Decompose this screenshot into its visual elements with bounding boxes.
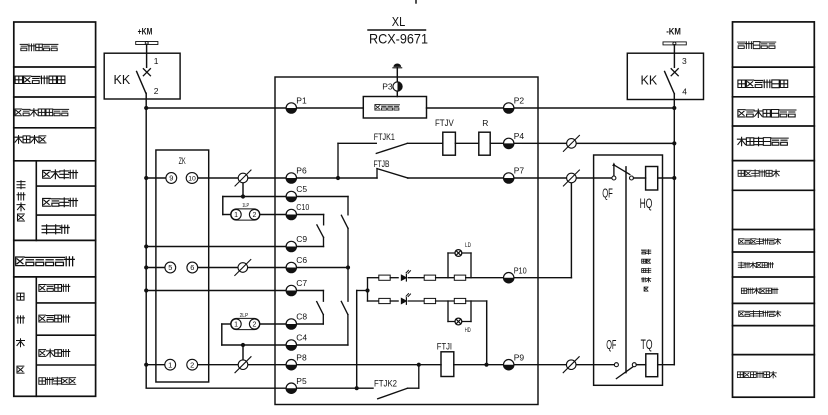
svg-text:HQ: HQ	[640, 196, 653, 211]
wire P10 up to P7 conn	[570, 183, 572, 278]
svg-text:C4: C4	[296, 333, 307, 343]
wire HQ to -KM bus	[658, 177, 675, 179]
wire C9 rail	[146, 246, 323, 248]
1LP terminal 2	[249, 209, 259, 219]
resistor upper 2	[424, 275, 435, 280]
knife switch C7-C8	[322, 291, 324, 302]
label 保护工作负电源	[738, 109, 796, 117]
resistor R	[479, 132, 490, 155]
gap between ZK contacts 5-6	[170, 265, 192, 269]
wire to 1LP	[223, 214, 232, 216]
terminal P10	[504, 273, 514, 283]
label 控制正电源	[20, 44, 58, 51]
wire 2LP elbow to C4	[221, 324, 223, 345]
label 跳闸回路 vertical	[17, 293, 25, 373]
svg-text:1LP: 1LP	[242, 203, 249, 209]
wire -KM to KK contact	[673, 45, 675, 68]
gap between ZK contacts 9-10	[171, 176, 192, 180]
KK right contact blade	[665, 72, 675, 94]
resistor upper 1	[379, 275, 390, 280]
knife switch C6-C4 (lower ZK stack)	[341, 301, 348, 314]
label 保护电源	[375, 105, 400, 110]
terminal P1	[286, 103, 296, 113]
svg-text:C8: C8	[296, 312, 307, 322]
ground/antenna symbol	[393, 63, 401, 66]
svg-text:2: 2	[190, 360, 194, 369]
knife switch C10-C9	[323, 215, 325, 225]
junction P5/branch	[355, 386, 359, 390]
label 开关跳闸线圈	[737, 371, 776, 378]
connector on P4 rail	[563, 135, 579, 151]
relay coil FTJI	[441, 352, 454, 377]
svg-text:2: 2	[253, 322, 257, 329]
2LP terminal 1	[231, 319, 241, 329]
label 遥控合闸	[43, 198, 78, 207]
contact FTJK1 (NO)	[337, 143, 339, 178]
terminal C9	[286, 241, 296, 251]
label 防跳接负电源	[737, 137, 788, 145]
junction FTJK1/P6	[336, 176, 340, 180]
relay coil FTJV	[443, 132, 456, 155]
svg-text:1: 1	[154, 56, 159, 66]
terminal C8	[286, 319, 296, 329]
1LP terminal 1	[231, 209, 241, 219]
svg-text:1: 1	[234, 212, 238, 219]
svg-text:2LP: 2LP	[240, 313, 249, 319]
svg-text:ZK: ZK	[179, 156, 186, 167]
wire FTJV to R	[455, 142, 478, 144]
svg-text:9: 9	[169, 174, 173, 183]
svg-text:1: 1	[234, 322, 238, 329]
svg-text:FTJK2: FTJK2	[374, 379, 397, 389]
wire P1 rail	[146, 107, 363, 109]
wire right -KM bus	[673, 94, 675, 365]
terminal P3	[393, 82, 402, 91]
2LP terminal 2	[249, 319, 259, 329]
label 防跳回路	[15, 135, 46, 143]
wire P10 rail	[514, 277, 572, 279]
terminal C5	[286, 191, 296, 201]
junction P6	[144, 176, 148, 180]
terminal P5	[286, 383, 296, 393]
knife switch C5-C6 (upper ZK stack)	[347, 197, 349, 215]
wire P7 rail	[408, 177, 614, 179]
svg-text:R: R	[482, 118, 488, 128]
svg-text:5: 5	[168, 263, 172, 272]
svg-text:C5: C5	[296, 184, 307, 194]
svg-text:HD: HD	[465, 328, 471, 334]
svg-text:P10: P10	[514, 265, 527, 275]
label 开关控制负极	[738, 80, 788, 88]
title fraction line	[368, 29, 426, 31]
wire P2 rail	[427, 107, 675, 109]
terminal C7	[286, 285, 296, 295]
module RCX-9671 box	[275, 77, 538, 405]
-KM terminal bar	[663, 42, 686, 45]
ZK contact 6	[187, 262, 198, 273]
KK left contact blade	[137, 72, 146, 94]
breaker typical circuit box	[594, 155, 663, 385]
svg-text:1: 1	[168, 360, 172, 369]
label 手动合闸	[43, 170, 78, 179]
right legend table	[733, 22, 815, 397]
upper indication branch (LD / P10)	[368, 277, 379, 279]
wire +KM to KK contact	[146, 44, 148, 67]
svg-text:2: 2	[154, 86, 159, 96]
svg-text:-KM: -KM	[666, 27, 681, 37]
label 保护合位指示灯	[739, 311, 781, 317]
wire FTJK1 to FTJV	[407, 142, 442, 144]
terminal P8	[286, 360, 296, 370]
lamp HD	[455, 318, 462, 325]
svg-text:6: 6	[190, 263, 194, 272]
junction C6	[144, 265, 148, 269]
label 跳闸自保持	[39, 377, 76, 385]
wire C5 rail	[223, 196, 348, 198]
wire P9 rail	[454, 364, 617, 366]
label 合闸回路监视	[738, 262, 773, 268]
stray tick top	[415, 0, 417, 3]
junction C9	[144, 244, 148, 248]
label 真空开关跳合闸回路 vertical block	[641, 250, 650, 292]
label 跳闸回路监视	[741, 288, 778, 294]
wire QF to HQ	[634, 177, 646, 179]
switch KK left box	[104, 53, 180, 99]
svg-text:10: 10	[188, 176, 196, 183]
mechanism link line	[625, 167, 627, 373]
terminal P9	[504, 360, 514, 370]
wire lower branch down to P9 rail	[486, 301, 488, 365]
svg-text:C6: C6	[296, 255, 307, 265]
switch KK right box	[627, 53, 703, 99]
resistor upper 3	[454, 275, 465, 280]
junction P2/-KM	[672, 106, 676, 110]
terminal P6	[286, 173, 296, 183]
contact QF upper (NO aux)	[613, 165, 615, 176]
label 合闸回路 vertical	[17, 181, 25, 221]
ZK contact 1	[165, 359, 176, 370]
connector on P8 rail	[235, 357, 251, 373]
svg-text:XL: XL	[392, 14, 406, 29]
coil TQ (trip coil)	[646, 354, 658, 377]
svg-text:C10: C10	[296, 202, 309, 212]
switch ZK box	[156, 150, 209, 382]
terminal P7	[504, 173, 514, 183]
svg-text:C7: C7	[296, 278, 307, 288]
label 开关控制正极	[15, 76, 65, 84]
wire C6 rail	[146, 267, 348, 269]
node common of LED branches	[367, 278, 369, 301]
wire left +KM bus	[145, 93, 147, 388]
svg-text:FTJK1: FTJK1	[374, 132, 395, 142]
junction C7	[144, 288, 148, 292]
svg-text:P4: P4	[514, 131, 525, 141]
svg-text:FTJI: FTJI	[437, 342, 452, 352]
junction conn/C4	[241, 343, 245, 347]
svg-text:LD: LD	[465, 243, 472, 249]
wire ground to P3 to power box	[396, 68, 398, 97]
ZK contact 10	[186, 173, 198, 184]
svg-text:4: 4	[682, 87, 687, 97]
svg-text:FTJB: FTJB	[374, 159, 390, 169]
junction HQ/-KM	[672, 176, 676, 180]
junction P8	[144, 363, 148, 367]
diode upper	[401, 270, 410, 281]
block 保护电源 box	[363, 97, 426, 119]
connector on C6 rail	[235, 260, 251, 276]
svg-text:+KM: +KM	[138, 27, 153, 37]
junction conn/C5	[241, 194, 245, 198]
svg-text:QF: QF	[602, 187, 613, 201]
svg-text:P2: P2	[514, 96, 525, 106]
svg-text:RCX-9671: RCX-9671	[369, 30, 428, 46]
resistor lower 2	[424, 298, 435, 303]
resistor lower 3	[454, 298, 465, 303]
KK left contact cross	[143, 69, 150, 76]
svg-text:TQ: TQ	[641, 337, 653, 352]
coil HQ (closing coil)	[646, 167, 658, 191]
label 重合闸	[42, 225, 69, 234]
wire C4 rail	[222, 344, 348, 346]
resistor lower 1	[379, 298, 390, 303]
wire stub C4 to conn	[242, 345, 244, 360]
left legend table	[14, 22, 96, 396]
wire stub conn to C5	[242, 183, 244, 197]
label 保护跳闸	[39, 284, 70, 291]
svg-text:P8: P8	[296, 352, 307, 362]
wire QF to TQ	[636, 364, 646, 366]
wire branch common down to P5 rail	[356, 291, 358, 389]
svg-text:KK: KK	[114, 73, 131, 87]
label 保护工作正电源	[15, 109, 69, 117]
label 控制负电源	[737, 42, 775, 49]
diode lower	[401, 294, 410, 305]
lower indication branch (HD / P9)	[368, 300, 379, 302]
strap link 1LP	[231, 209, 260, 220]
wire C10 rail	[259, 214, 323, 216]
label 手动跳闸	[39, 349, 70, 357]
terminal C10	[286, 209, 296, 219]
terminal P2	[504, 103, 514, 113]
KK right contact cross	[671, 69, 678, 76]
lamp HD loop	[447, 301, 449, 322]
label 遥控电源控制	[16, 257, 75, 266]
ZK contact 5	[165, 262, 176, 273]
connector on P9 rail	[563, 357, 579, 373]
gap between ZK contacts 1-2	[170, 363, 192, 367]
junction +KM/P1	[144, 106, 148, 110]
wire 2LP left	[222, 323, 232, 325]
ZK contact 9	[166, 173, 177, 184]
svg-text:C9: C9	[296, 234, 307, 244]
terminal P4	[504, 138, 514, 148]
wire R to P4 to -KM bus	[490, 142, 674, 144]
junction P8/FTJK2	[417, 363, 421, 367]
svg-text:P1: P1	[296, 96, 307, 106]
svg-text:P5: P5	[296, 376, 307, 386]
label 保护分位指示灯	[739, 238, 781, 244]
terminal C4	[286, 340, 296, 350]
svg-text:P9: P9	[514, 352, 525, 362]
wire TQ to -KM bus	[658, 364, 675, 366]
svg-text:P3: P3	[382, 82, 393, 92]
wire P5 rail	[146, 387, 373, 389]
svg-text:FTJV: FTJV	[435, 118, 454, 128]
junction P4/-KM	[672, 141, 676, 145]
wire C8 rail	[259, 323, 323, 325]
svg-text:2: 2	[253, 212, 257, 219]
connector on P6 rail	[235, 170, 251, 186]
connector on P7 rail	[563, 170, 579, 186]
svg-text:3: 3	[682, 56, 687, 66]
lamp LD	[455, 250, 462, 257]
wire P8 rail	[146, 364, 441, 366]
terminal C6	[286, 262, 296, 272]
lamp LD loop	[447, 253, 449, 278]
junction C6/ZK stack	[346, 265, 350, 269]
wire C5 elbow to 1LP	[222, 197, 224, 215]
contact FTJB (NC)	[376, 169, 378, 178]
+KM terminal bar	[136, 42, 158, 45]
strap link 2LP	[231, 318, 260, 329]
label 开关合闸线圈	[738, 170, 779, 177]
wire P6 rail	[146, 177, 377, 179]
svg-text:P6: P6	[296, 166, 307, 176]
svg-text:QF: QF	[606, 338, 616, 352]
svg-text:P7: P7	[514, 166, 525, 176]
ZK contact 2	[187, 359, 198, 370]
label 遥控跳闸	[39, 315, 70, 322]
contact FTJK2 (NO)	[378, 388, 408, 399]
wire C7 rail	[146, 290, 323, 292]
junction LED branches	[365, 288, 369, 292]
contact QF lower (NO aux)	[614, 363, 618, 367]
svg-text:KK: KK	[641, 74, 658, 88]
junction P9/branch	[484, 363, 488, 367]
